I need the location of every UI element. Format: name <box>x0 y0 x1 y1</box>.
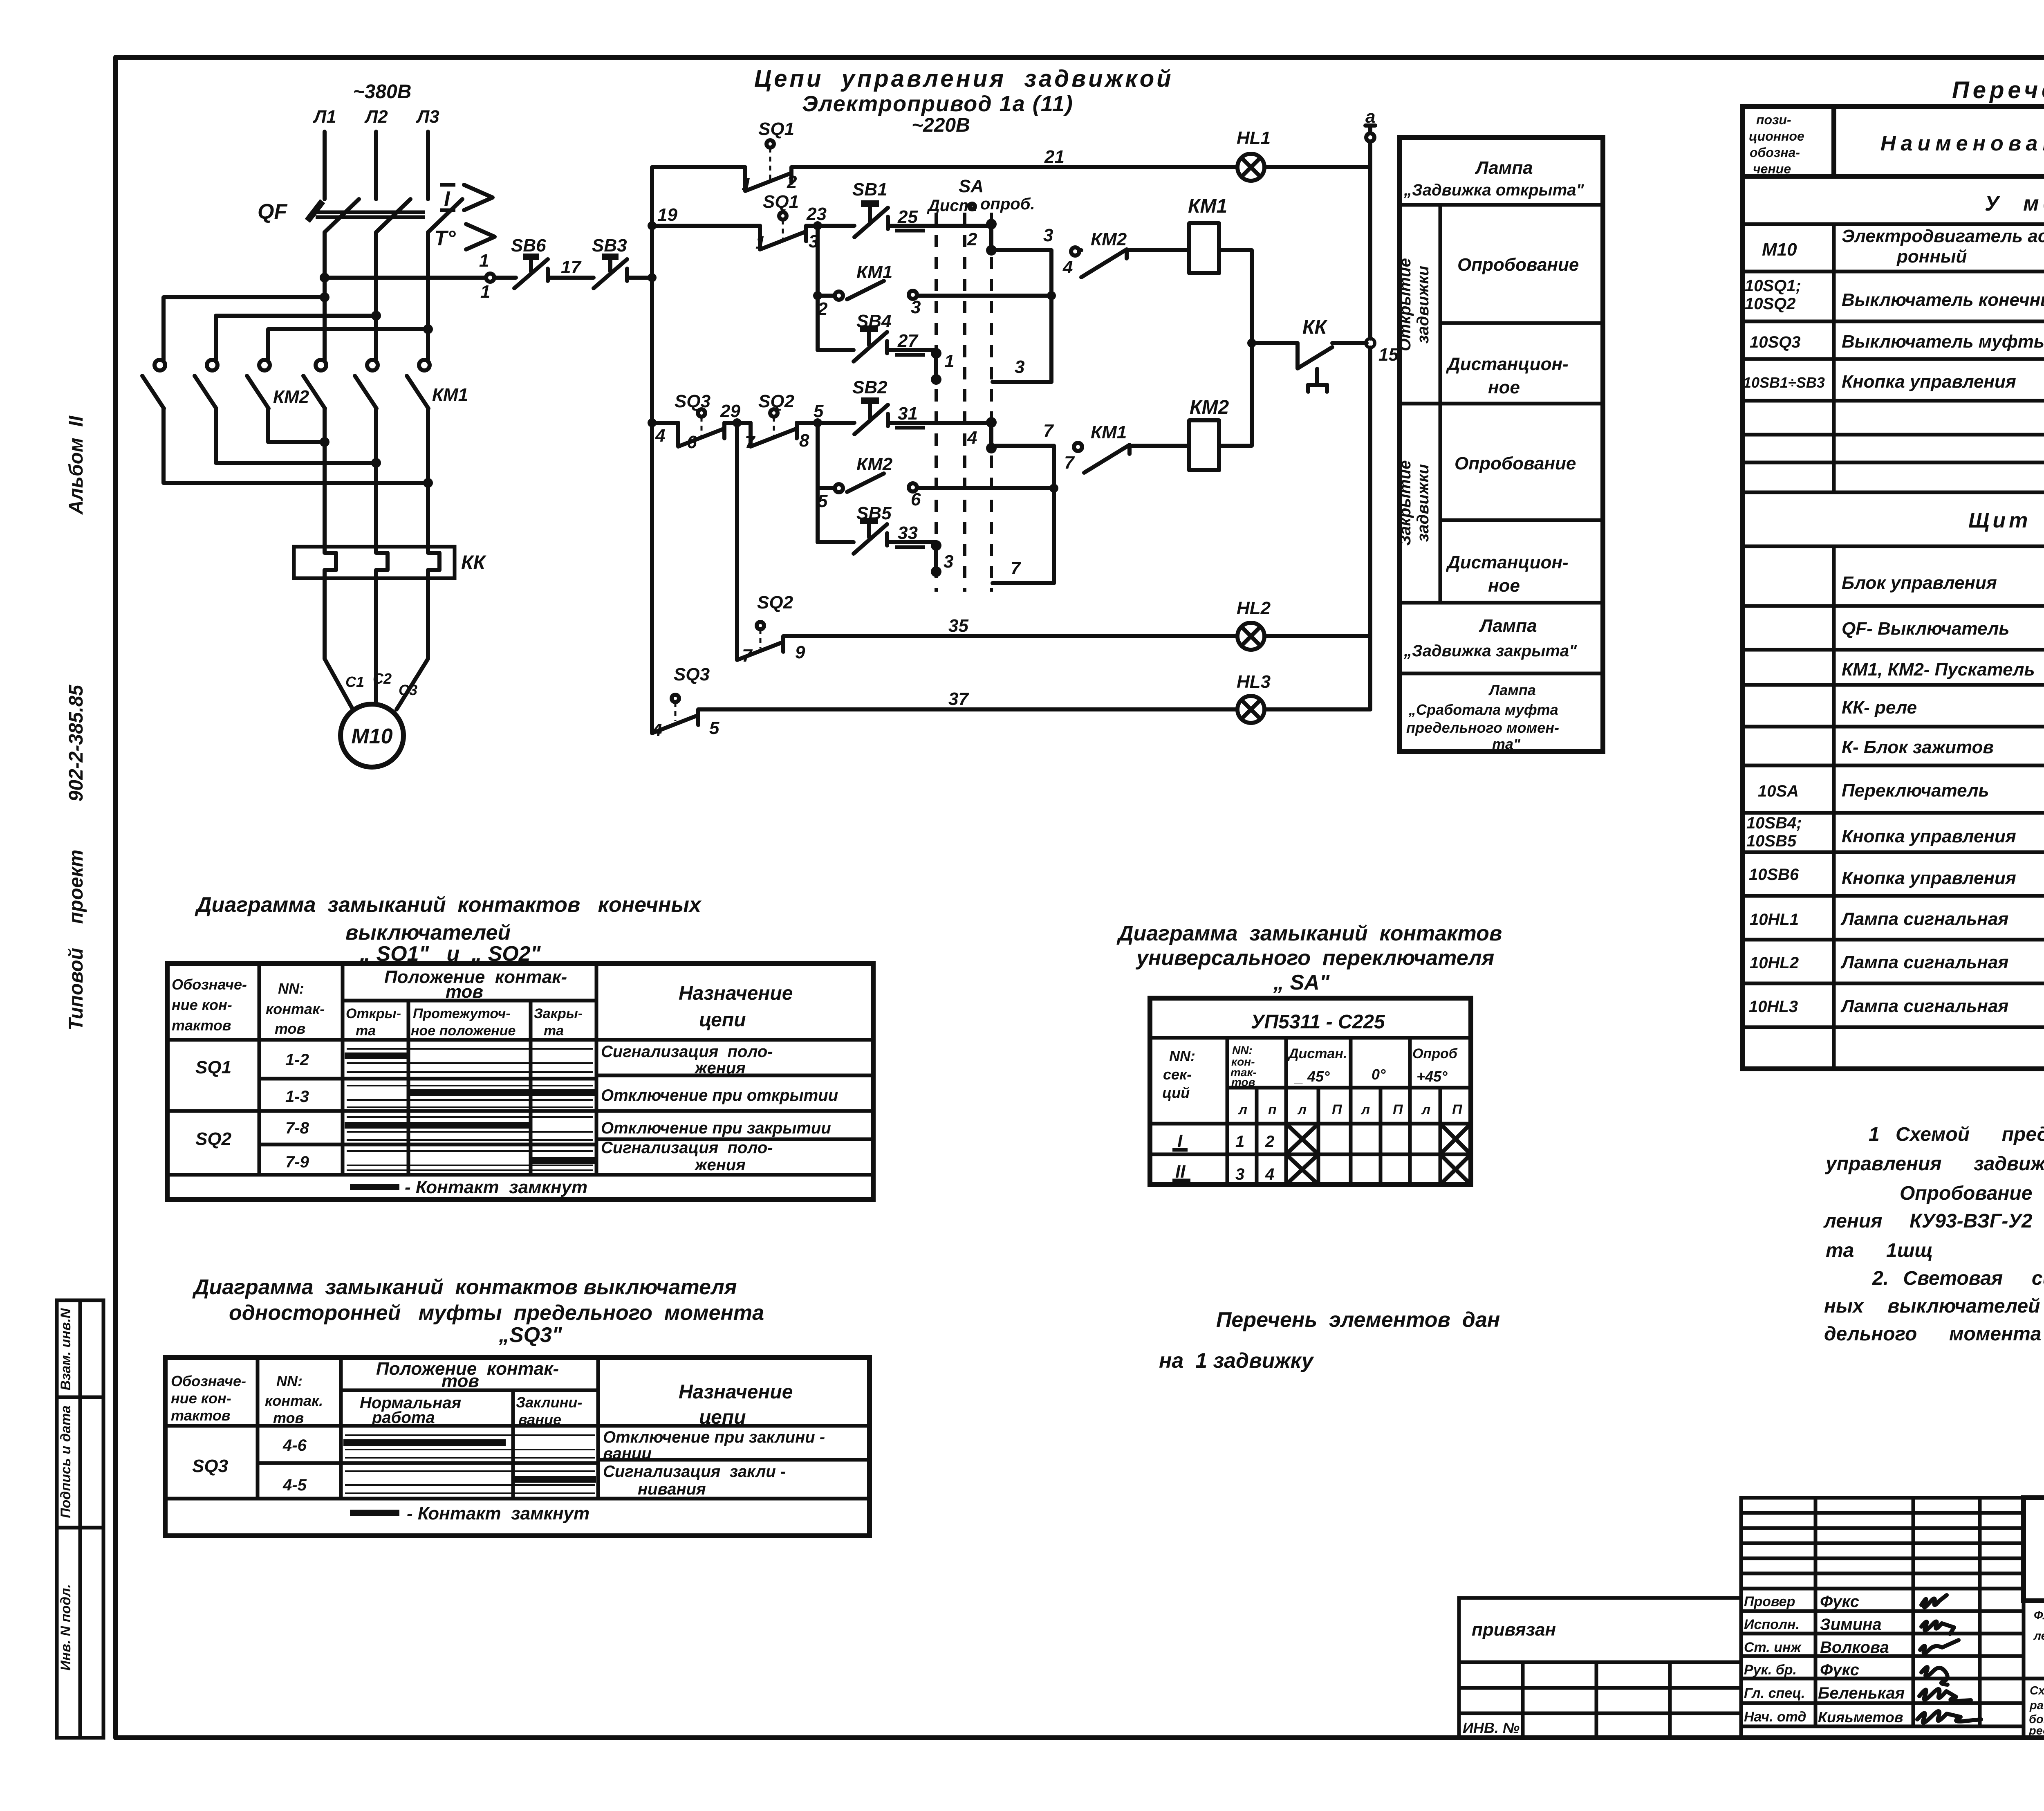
svg-text:КМ2: КМ2 <box>1091 229 1127 249</box>
svg-text:3: 3 <box>911 297 921 317</box>
svg-text:Наименование: Наименование <box>1880 132 2044 155</box>
wire node 17 <box>561 257 582 277</box>
row limit switches 10SQ1 10SQ2 <box>1745 277 2044 313</box>
left control bus <box>648 167 657 709</box>
diagram table 1 row SQ2 7-8 <box>195 1117 831 1149</box>
control circuit title <box>754 65 1174 136</box>
svg-text:Опробование: Опробование <box>1455 453 1576 474</box>
svg-text:SQ3: SQ3 <box>675 391 710 411</box>
motor terminal labels C1 C2 C3 <box>345 670 417 698</box>
svg-text:Опробование по месту кнопко: Опробование по месту кнопкой управ- <box>1900 1183 2044 1204</box>
wire KM2 phase jog 3 <box>268 324 433 360</box>
svg-text:Диаграмма замыканий контакто: Диаграмма замыканий контактов <box>1116 922 1502 945</box>
auxiliary contact KM1 (self hold) <box>813 226 1051 350</box>
diagram table 2 legend <box>350 1504 589 1524</box>
svg-text:Исполн.: Исполн. <box>1744 1617 1800 1632</box>
svg-text:Нач. отд: Нач. отд <box>1744 1709 1806 1725</box>
svg-text:8: 8 <box>799 431 809 451</box>
svg-text:Подпись и дата: Подпись и дата <box>58 1405 74 1518</box>
svg-text:4-6: 4-6 <box>282 1436 307 1454</box>
svg-text:П: П <box>1332 1102 1342 1118</box>
svg-text:29: 29 <box>720 401 740 421</box>
svg-text:~380В: ~380В <box>353 81 412 103</box>
contactor coil KM1 <box>1188 195 1252 273</box>
svg-text:ления производительностью: ления производительностью <box>2033 1629 2044 1643</box>
svg-text:вании: вании <box>603 1445 652 1463</box>
svg-text:КК: КК <box>1302 316 1328 338</box>
svg-text:7: 7 <box>742 646 753 666</box>
svg-text:Отключение при заклини -: Отключение при заклини - <box>603 1428 825 1446</box>
row control unit <box>1842 555 2044 593</box>
svg-text:Блок управления: Блок управления <box>1842 573 1997 593</box>
svg-text:33: 33 <box>898 523 918 543</box>
svg-text:Открытие: Открытие <box>1396 258 1414 351</box>
svg-text:та: та <box>356 1023 376 1039</box>
svg-text:2: 2 <box>967 229 977 249</box>
svg-text:Сигнализация поло-: Сигнализация поло- <box>601 1043 773 1061</box>
contactor KM1 main contacts <box>303 360 468 408</box>
svg-text:Гл. спец.: Гл. спец. <box>1744 1685 1805 1701</box>
svg-text:Кнопка управления: Кнопка управления <box>1842 826 2016 846</box>
row signal lamp 10HL2 <box>1750 945 2044 976</box>
svg-text:Диаграмма замыканий контакто: Диаграмма замыканий контактов выключател… <box>192 1275 737 1299</box>
svg-text:Перечень элементов дан: Перечень элементов дан <box>1216 1308 1500 1332</box>
SA diagram row II <box>1172 1154 1471 1185</box>
svg-text:10SA: 10SA <box>1758 782 1799 800</box>
svg-text:управления задвижкой 10 (11): управления задвижкой 10 (11) : <box>1825 1153 2044 1175</box>
svg-text:4: 4 <box>652 720 662 740</box>
supply label ~380V <box>353 81 412 103</box>
QF overcurrent release mark I> <box>440 185 493 211</box>
wire 27 label <box>895 331 925 355</box>
svg-text:на 1 задвижку: на 1 задвижку <box>1159 1349 1315 1373</box>
svg-text:ние кон-: ние кон- <box>171 1390 231 1407</box>
svg-text:КМ1: КМ1 <box>432 385 468 405</box>
svg-text:выключателей: выключателей <box>345 921 511 945</box>
right control bus with node a <box>1365 107 1375 709</box>
svg-text:SA: SA <box>959 176 984 196</box>
wire node 7 to KM2 coil branch <box>991 421 1058 583</box>
limit switch SQ2 contact 7-8 <box>745 391 809 452</box>
svg-text:_ 45°: _ 45° <box>1294 1068 1330 1085</box>
svg-text:тов: тов <box>1231 1076 1255 1088</box>
svg-text:П: П <box>1452 1102 1463 1118</box>
pushbutton SB3 (NC) <box>572 236 652 288</box>
svg-text:Обозначе-: Обозначе- <box>171 1373 246 1389</box>
svg-text:контак.: контак. <box>265 1392 323 1409</box>
switch SA section line 2 <box>963 213 966 592</box>
note: element list given for one valve <box>1159 1308 1500 1373</box>
wire SA3 to node 7 <box>993 558 1054 583</box>
svg-text:1-2: 1-2 <box>285 1051 309 1069</box>
svg-text:С1: С1 <box>345 673 364 690</box>
svg-text:SB1: SB1 <box>852 180 888 200</box>
svg-text:цепи: цепи <box>699 1407 746 1428</box>
svg-text:ционное: ционное <box>1749 129 1804 144</box>
row pushbutton 10SB6 <box>1749 855 2044 897</box>
svg-text:Л1: Л1 <box>313 107 336 127</box>
SA diagram table texts <box>1162 1011 1463 1118</box>
element list title <box>1952 77 2044 103</box>
svg-text:П: П <box>1393 1102 1403 1118</box>
wire motor leads to thermal relay <box>325 408 428 548</box>
svg-text:КМ1: КМ1 <box>1091 422 1127 442</box>
svg-text:Перечень элементов: Перечень элементов <box>1952 77 2044 103</box>
svg-text:7: 7 <box>1064 453 1075 473</box>
svg-text:1: 1 <box>742 174 751 194</box>
svg-text:та: та <box>544 1023 564 1039</box>
wire KM2 output crossover to motor lead 3 <box>164 408 433 488</box>
svg-text:С3: С3 <box>399 682 417 698</box>
svg-text:„Сработала муфта: „Сработала муфта <box>1408 701 1558 718</box>
svg-text:3: 3 <box>1235 1165 1244 1183</box>
diagram table 1 title <box>195 893 702 966</box>
phase label L3 <box>416 107 439 127</box>
svg-text:3: 3 <box>944 552 953 572</box>
svg-text:КМ1: КМ1 <box>856 262 892 282</box>
svg-text:5: 5 <box>814 401 824 421</box>
wire QF outputs down <box>325 232 428 361</box>
wire 19 node <box>657 205 677 225</box>
svg-text:работа: работа <box>372 1409 435 1427</box>
svg-text:SQ1: SQ1 <box>763 192 799 212</box>
svg-text:Закры-: Закры- <box>534 1006 583 1021</box>
svg-text:SQ2: SQ2 <box>757 592 793 613</box>
diagram table 2 title <box>192 1275 764 1347</box>
svg-text:опроб.: опроб. <box>980 195 1035 213</box>
svg-text:37: 37 <box>948 689 969 709</box>
svg-text:27: 27 <box>897 331 919 351</box>
svg-text:КМ2: КМ2 <box>273 387 309 407</box>
svg-text:дельного момента задвижки.: дельного момента задвижки. <box>1824 1323 2044 1345</box>
svg-text:Отключение при закрытии: Отключение при закрытии <box>601 1119 831 1137</box>
SA diagram table grid <box>1150 998 1471 1185</box>
svg-text:Флотаторы заводского изготов.: Флотаторы заводского изготов. <box>2034 1609 2044 1622</box>
motor M10 <box>341 704 403 767</box>
SA diagram title <box>1116 922 1502 994</box>
svg-text:ное положение: ное положение <box>411 1023 515 1039</box>
row breaker QF <box>1842 614 2044 639</box>
svg-text:- Контакт замкнут: - Контакт замкнут <box>405 1177 587 1197</box>
svg-text:QF: QF <box>258 200 287 224</box>
svg-text:7-9: 7-9 <box>285 1153 309 1171</box>
svg-text:привязан: привязан <box>1472 1620 1556 1640</box>
wire 35 to lamp HL2 <box>783 616 1237 636</box>
notes text <box>1823 1124 2044 1345</box>
svg-text:Лампа сигнальная: Лампа сигнальная <box>1840 952 2008 972</box>
signal lamp HL2 <box>1237 598 1370 650</box>
svg-text:Дистан.: Дистан. <box>1287 1046 1347 1061</box>
coupling switch SQ3 contact 4-6 <box>652 391 724 452</box>
limit switch SQ1 contact 1-3 (row 19) <box>652 192 818 253</box>
SA diagram row I <box>1172 1124 1471 1154</box>
SA contact 3 (dist) <box>931 540 953 577</box>
svg-text:тов: тов <box>275 1020 305 1037</box>
wire node 23 <box>806 204 854 230</box>
diagram table 1 header texts <box>172 967 793 1039</box>
wire coil join vertical <box>1247 250 1256 446</box>
svg-text:21: 21 <box>1044 147 1065 167</box>
pushbutton SB1 (open, NO) <box>852 180 991 237</box>
svg-text:Выключатель муфты: Выключатель муфты <box>1842 332 2044 352</box>
title block project description <box>2024 1609 2044 1737</box>
svg-text:Взам. инв.N: Взам. инв.N <box>58 1308 74 1390</box>
auxiliary contact KM2 (self hold) <box>818 423 1054 542</box>
row M10 motor <box>1762 226 2044 269</box>
svg-text:1 Схемой предустатривается д: 1 Схемой предустатривается два вида <box>1869 1124 2044 1145</box>
wire 25 label <box>895 207 925 231</box>
svg-text:КМ1, КМ2- Пускатель: КМ1, КМ2- Пускатель <box>1842 660 2035 680</box>
element list table grid <box>1742 106 2044 1069</box>
wire KM2 output crossover to motor lead 1 <box>268 408 329 447</box>
svg-text:2: 2 <box>787 172 797 192</box>
svg-text:контак-: контак- <box>266 1001 325 1017</box>
svg-text:Л2: Л2 <box>364 107 388 127</box>
switch SA labels <box>927 176 1035 215</box>
svg-text:~220В: ~220В <box>912 114 970 136</box>
svg-text:5: 5 <box>818 491 828 511</box>
svg-text:Цепи управления задвижкой: Цепи управления задвижкой <box>754 65 1174 92</box>
wire SA1 to node 3 <box>993 357 1051 382</box>
switch SA section line 1 (Dist.) <box>935 213 938 592</box>
wire phase L1 drop <box>323 132 327 199</box>
svg-text:Провер: Провер <box>1744 1594 1795 1609</box>
svg-text:Протежуточ-: Протежуточ- <box>413 1006 511 1021</box>
svg-text:ное: ное <box>1488 576 1520 596</box>
row signal lamp 10HL3 <box>1749 989 2044 1021</box>
title block attachment box <box>1459 1598 1741 1738</box>
svg-text:Волкова: Волкова <box>1820 1638 1889 1656</box>
svg-text:Кияьметов: Кияьметов <box>1818 1709 1903 1726</box>
wire KM2 phase jog 2 <box>216 311 381 360</box>
wire KM2 output crossover to motor lead 2 <box>216 408 381 468</box>
svg-text:I: I <box>444 187 450 211</box>
svg-text:ций: ций <box>1162 1084 1190 1101</box>
svg-text:17: 17 <box>561 257 582 277</box>
svg-text:Альбом II: Альбом II <box>65 415 87 515</box>
svg-text:3: 3 <box>1015 357 1024 377</box>
svg-text:Дистанцион-: Дистанцион- <box>1446 552 1569 572</box>
svg-text:ления КУ93-ВЗГ-У2 и дистанц: ления КУ93-ВЗГ-У2 и дистанционное со щи- <box>1823 1210 2044 1232</box>
switch SA section line 3 (Oprob.) <box>990 213 993 592</box>
svg-text:Электропривод 1а (11): Электропривод 1а (11) <box>802 92 1074 116</box>
diagram table 1 grid <box>167 963 873 1200</box>
phase label L2 <box>364 107 388 127</box>
svg-text:4: 4 <box>655 426 665 446</box>
wire node 4 on bus <box>655 426 665 446</box>
svg-text:задвижки: задвижки <box>1414 464 1432 542</box>
svg-text:л: л <box>1421 1102 1430 1118</box>
svg-text:10SB1÷SB3: 10SB1÷SB3 <box>1743 374 1825 391</box>
contactor KM2 main contacts <box>142 360 309 408</box>
diagram table 2 row 4-6 <box>192 1428 825 1476</box>
svg-text:NN:: NN: <box>1169 1048 1195 1064</box>
svg-text:HL1: HL1 <box>1237 128 1271 148</box>
svg-text:Назначение: Назначение <box>679 983 793 1004</box>
svg-text:10SB4;: 10SB4; <box>1746 814 1802 832</box>
svg-text:10SQ1;: 10SQ1; <box>1745 277 1801 295</box>
svg-text:КМ2: КМ2 <box>856 454 893 474</box>
svg-text:равления задвижкой на тру-: равления задвижкой на тру- <box>2029 1699 2044 1712</box>
svg-text:Закрытие: Закрытие <box>1396 460 1414 545</box>
svg-text:ных выключателей и выключат: ных выключателей и выключателя муфты пре… <box>1824 1295 2044 1317</box>
svg-text:Лампа: Лампа <box>1479 616 1537 636</box>
svg-text:та": та" <box>1492 736 1521 752</box>
svg-text:7: 7 <box>1011 558 1022 578</box>
svg-text:SQ1: SQ1 <box>195 1057 231 1077</box>
svg-text:10HL3: 10HL3 <box>1749 998 1798 1016</box>
section header: at mechanism <box>1985 192 2044 215</box>
wire phase L2 drop <box>374 132 378 199</box>
thermal relay contact KK (NC) <box>1252 316 1367 392</box>
svg-text:Опробование: Опробование <box>1457 255 1579 275</box>
svg-text:25: 25 <box>897 207 918 227</box>
svg-text:Кнопка управления: Кнопка управления <box>1842 868 2016 888</box>
svg-text:Сигнализация закли -: Сигнализация закли - <box>603 1463 786 1481</box>
thermal relay KK heaters <box>294 547 487 578</box>
svg-text:10HL1: 10HL1 <box>1750 911 1799 929</box>
svg-text:23: 23 <box>806 204 827 224</box>
limit switch SQ2 contact 7-9 (row 35) <box>737 423 805 666</box>
title block document number box <box>2024 1498 2044 1601</box>
svg-text:Электродвигатель асинх-: Электродвигатель асинх- <box>1842 226 2044 246</box>
row pushbuttons 10SB4 10SB5 <box>1746 813 2044 854</box>
svg-text:1: 1 <box>755 233 765 253</box>
wire 37 to lamp HL3 <box>698 689 1237 709</box>
svg-text:SQ3: SQ3 <box>192 1456 228 1476</box>
breaker QF <box>258 199 462 232</box>
svg-text:6: 6 <box>911 489 921 509</box>
QF thermal release mark T> <box>434 224 495 250</box>
auxiliary contact KM1 (NC interlock) <box>1064 422 1189 473</box>
contactor coil KM2 <box>1189 397 1252 470</box>
svg-text:Рук. бр.: Рук. бр. <box>1744 1662 1797 1678</box>
svg-text:- Контакт замкнут: - Контакт замкнут <box>407 1504 589 1524</box>
diagram table 2 row 4-5 <box>282 1463 786 1498</box>
svg-text:SB3: SB3 <box>592 236 627 256</box>
svg-text:4: 4 <box>967 428 977 448</box>
svg-text:У механизма: У механизма <box>1985 192 2044 215</box>
svg-text:тов: тов <box>273 1409 304 1426</box>
svg-text:обозна-: обозна- <box>1750 145 1800 160</box>
svg-text:л: л <box>1297 1102 1307 1118</box>
svg-text:л: л <box>1238 1102 1247 1118</box>
svg-text:Отключение при открытии: Отключение при открытии <box>601 1086 838 1104</box>
left margin rotated album label <box>65 415 87 1030</box>
svg-text:Лампа: Лампа <box>1488 682 1536 698</box>
svg-text:односторонней муфты предель: односторонней муфты предельного момента <box>229 1301 764 1325</box>
svg-text:Обозначе-: Обозначе- <box>172 976 247 993</box>
signal lamp HL1 <box>1237 128 1370 181</box>
svg-text:10SB5: 10SB5 <box>1746 832 1797 850</box>
row pushbutton station 10SB1-SB3 <box>1743 362 2044 398</box>
svg-text:Лампа: Лампа <box>1475 158 1533 178</box>
wire control tap from phase L1 <box>320 251 516 302</box>
svg-text:Типовой проект 902-2-385.8: Типовой проект 902-2-385.85 <box>65 684 87 1030</box>
svg-text:УП5311 - С225: УП5311 - С225 <box>1251 1011 1385 1033</box>
row terminal block K <box>1842 725 2044 761</box>
svg-text:1: 1 <box>479 251 489 271</box>
svg-text:„Задвижка закрыта": „Задвижка закрыта" <box>1403 642 1577 660</box>
svg-text:Зимина: Зимина <box>1820 1616 1882 1634</box>
svg-text:SQ1: SQ1 <box>758 119 794 139</box>
svg-text:задвижки: задвижки <box>1414 266 1432 343</box>
wire node 29 <box>720 401 751 427</box>
svg-text:7: 7 <box>1043 421 1054 441</box>
svg-text:ное: ное <box>1488 377 1520 397</box>
svg-text:NN:: NN: <box>278 980 304 997</box>
svg-text:Дистанцион-: Дистанцион- <box>1446 354 1569 374</box>
svg-text:КК: КК <box>461 552 487 574</box>
limit switch SQ1 top contact (row 21) <box>652 119 797 194</box>
pushbutton SB5 (test close) <box>818 503 936 554</box>
svg-text:4: 4 <box>1062 257 1073 277</box>
auxiliary contact KM2 (NC interlock) <box>1062 229 1189 277</box>
svg-text:Ст. инж: Ст. инж <box>1744 1640 1802 1655</box>
svg-text:NN:: NN: <box>1232 1044 1253 1057</box>
svg-text:Щит 1 шщ: Щит 1 шщ <box>1968 509 2044 532</box>
svg-text:2: 2 <box>817 299 828 319</box>
svg-text:Инв. N подл.: Инв. N подл. <box>58 1584 74 1671</box>
svg-text:КК- реле: КК- реле <box>1842 698 1917 718</box>
diagram table 1 row SQ1 1-2 <box>195 1043 773 1077</box>
svg-text:SB2: SB2 <box>852 377 888 397</box>
svg-text:7-8: 7-8 <box>285 1119 309 1137</box>
svg-text:HL3: HL3 <box>1237 672 1271 692</box>
svg-text:Фукс: Фукс <box>1820 1661 1859 1679</box>
svg-text:ронный: ронный <box>1896 247 1967 267</box>
svg-text:SQ3: SQ3 <box>674 664 710 684</box>
svg-text:Переключатель: Переключатель <box>1842 781 1989 801</box>
svg-text:„Задвижка открыта": „Задвижка открыта" <box>1403 181 1585 199</box>
svg-text:10SQ2: 10SQ2 <box>1745 295 1796 313</box>
SA contact 2 (oprob, open circuit) <box>967 219 997 256</box>
svg-text:5: 5 <box>709 718 719 738</box>
svg-text:Заклини-: Заклини- <box>516 1394 582 1411</box>
svg-text:цепи: цепи <box>699 1009 746 1031</box>
svg-text:тактов: тактов <box>172 1017 231 1034</box>
svg-text:2. Световая сигнализация пол: 2. Световая сигнализация положения конеч… <box>1872 1268 2044 1289</box>
svg-text:Схема принципиальная уп-: Схема принципиальная уп- <box>2030 1684 2044 1697</box>
svg-text:Л3: Л3 <box>416 107 439 127</box>
svg-text:жения: жения <box>694 1059 746 1077</box>
svg-text:Беленькая: Беленькая <box>1818 1684 1905 1702</box>
svg-text:КМ1: КМ1 <box>1188 195 1227 217</box>
svg-text:Лампа сигнальная: Лампа сигнальная <box>1840 909 2008 929</box>
svg-text:0°: 0° <box>1372 1066 1386 1083</box>
svg-text:п: п <box>1268 1102 1277 1118</box>
pushbutton SB6 (stop, NC) <box>511 236 572 288</box>
svg-text:6: 6 <box>687 432 697 452</box>
diagram table 1 row SQ1 1-3 <box>285 1086 838 1107</box>
svg-text:19: 19 <box>657 205 677 225</box>
svg-text:9: 9 <box>795 642 805 662</box>
diagram table 1 row SQ2 7-9 <box>285 1139 773 1174</box>
svg-text:„ SA": „ SA" <box>1273 971 1330 994</box>
svg-text:3: 3 <box>1043 225 1053 245</box>
row starters KM1 KM2 <box>1842 646 2044 681</box>
svg-text:жения: жения <box>694 1156 746 1174</box>
row signal lamp 10HL1 <box>1750 900 2044 932</box>
signal lamp HL3 <box>1237 672 1370 723</box>
svg-text:10HL2: 10HL2 <box>1750 954 1799 972</box>
phase label L1 <box>313 107 336 127</box>
svg-text:реднитель М10(М11): реднитель М10(М11) <box>2028 1724 2044 1737</box>
svg-text:4: 4 <box>1265 1165 1274 1183</box>
svg-text:М10: М10 <box>1762 240 1797 260</box>
svg-text:Кнопка управления: Кнопка управления <box>1842 372 2016 392</box>
svg-text:М10: М10 <box>351 725 392 748</box>
